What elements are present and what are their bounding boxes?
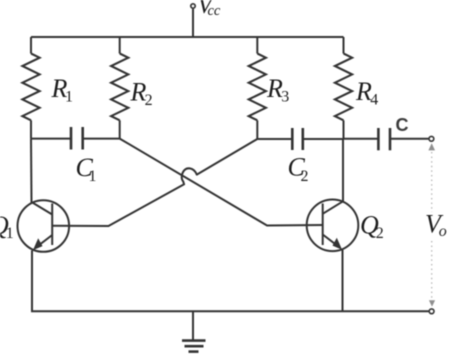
capacitor C1: [71, 127, 83, 150]
label R3: [266, 74, 289, 106]
wire R3 to C2: [257, 138, 292, 140]
svg-text:2: 2: [376, 225, 384, 242]
node output top terminal: [429, 136, 434, 141]
label Q1: [0, 211, 14, 242]
svg-text:3: 3: [281, 89, 289, 106]
wire Q2 emitter down: [342, 250, 344, 311]
svg-text:cc: cc: [208, 3, 221, 19]
transistor Q1: [18, 200, 70, 252]
wire base cross-coupling B with hop (R3/C2 node to Q1 base): [52, 139, 257, 226]
label C2: [288, 153, 309, 186]
wire R1 to C1: [31, 138, 71, 140]
capacitor C2: [292, 128, 303, 150]
label Q2: [360, 210, 384, 242]
wire Q1 emitter down: [31, 251, 33, 312]
label R1: [51, 74, 74, 106]
wire base cross-coupling A (R2/C1 node to Q2 base): [120, 139, 323, 226]
resistor R3: [249, 37, 266, 139]
wire bottom rail: [31, 310, 429, 312]
wire C1 to R2: [83, 138, 120, 140]
svg-text:4: 4: [370, 92, 378, 109]
wire top rail: [31, 36, 344, 38]
wire Vcc stem: [192, 9, 194, 37]
label R4: [355, 77, 378, 109]
wire C to output terminal: [390, 138, 429, 140]
label C1: [76, 153, 97, 185]
capacitor C: [378, 128, 390, 150]
label Vo: [425, 210, 447, 240]
transistor Q2: [307, 200, 359, 252]
label Vcc: [198, 0, 221, 19]
label R2: [130, 78, 153, 110]
arrow down (bottom of Vo line): [429, 300, 435, 306]
svg-text:2: 2: [145, 92, 153, 109]
svg-text:C: C: [396, 115, 409, 135]
arrow up (top of Vo line): [428, 143, 435, 150]
svg-text:1: 1: [89, 168, 97, 185]
resistor R4: [335, 37, 352, 139]
Vcc terminal: [191, 4, 195, 8]
wire Q1 collector up: [30, 139, 33, 203]
wire R4 node to C: [344, 138, 379, 140]
wire C2 to R4: [303, 138, 344, 140]
svg-text:1: 1: [6, 225, 14, 242]
wire Q2 collector up: [342, 139, 344, 202]
node output bottom terminal: [429, 309, 434, 314]
resistor R2: [111, 37, 128, 139]
svg-text:1: 1: [65, 88, 73, 105]
resistor R1: [22, 37, 39, 139]
ground: [182, 311, 206, 351]
svg-text:2: 2: [301, 168, 309, 185]
Vo dashed indicator line: [431, 152, 433, 298]
svg-text:o: o: [439, 223, 447, 240]
